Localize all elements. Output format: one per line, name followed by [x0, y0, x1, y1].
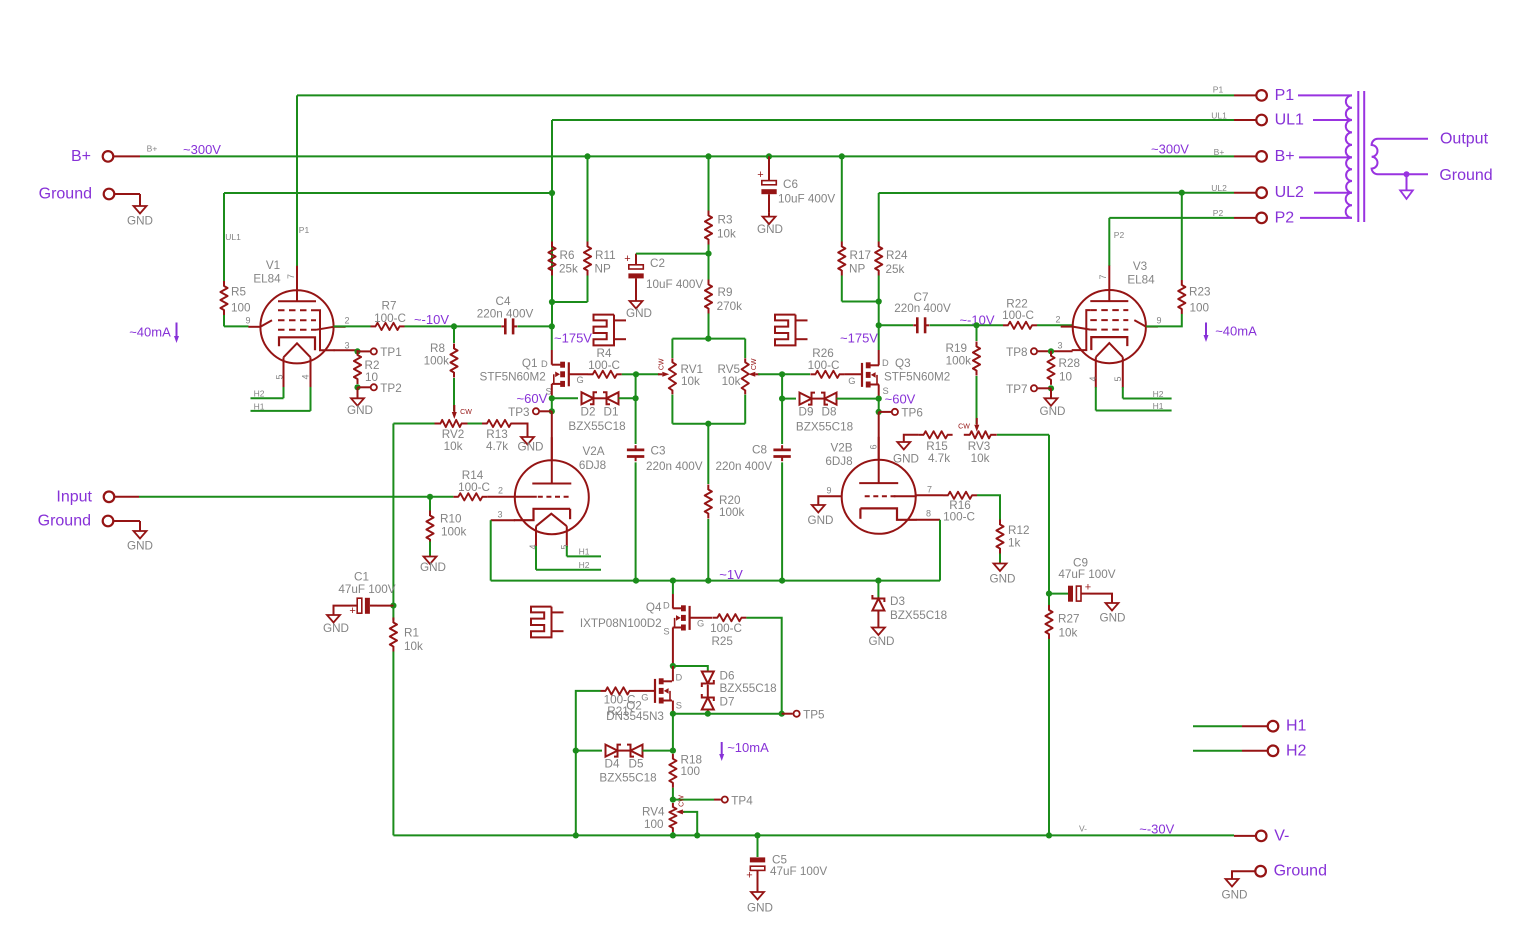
- svg-text:Q4: Q4: [646, 601, 662, 614]
- svg-text:D7: D7: [720, 695, 735, 708]
- wire T1 tap UL1: [1313, 119, 1352, 121]
- svg-text:TP2: TP2: [380, 382, 401, 395]
- wire bus to C5: [757, 835, 759, 857]
- test point TP5 circle: [794, 711, 800, 717]
- wire R8 top: [453, 326, 455, 343]
- junction C5: [754, 832, 760, 838]
- svg-text:STF5N60M2: STF5N60M2: [480, 371, 546, 384]
- svg-text:R17: R17: [850, 249, 871, 262]
- junction bus C3: [633, 578, 639, 584]
- wire T1 tap UL2: [1314, 192, 1352, 194]
- transistor Q1 STF5N60M2: [552, 362, 569, 387]
- wire H1 stub: [1242, 725, 1267, 727]
- svg-text:H2: H2: [254, 389, 265, 399]
- junction Q4 source / Q2 drain / D6: [670, 663, 676, 669]
- svg-text:10uF 400V: 10uF 400V: [646, 278, 703, 291]
- heater element (bias section): [531, 607, 564, 638]
- svg-text:P2: P2: [1213, 208, 1224, 218]
- svg-text:BZX55C18: BZX55C18: [599, 771, 656, 784]
- svg-text:CW: CW: [460, 409, 472, 416]
- svg-text:2: 2: [344, 316, 349, 326]
- junction D1/C3: [633, 395, 639, 401]
- wire R9 to box top: [708, 314, 710, 339]
- resistor R3: [705, 211, 712, 245]
- svg-text:GND: GND: [990, 573, 1016, 586]
- junction bus Q4 drain: [670, 578, 676, 584]
- wire V2B pin7 to R16: [917, 494, 944, 496]
- svg-text:Input: Input: [56, 488, 92, 505]
- wire B+ bus: [140, 155, 1234, 157]
- svg-text:D2: D2: [581, 406, 596, 419]
- wire TP8 to pin3: [1038, 350, 1073, 352]
- resistor R7: [371, 323, 405, 330]
- connector P1: [1256, 90, 1267, 101]
- resistor R12: [996, 520, 1003, 554]
- svg-text:~60V: ~60V: [517, 391, 548, 406]
- junction R6/R11: [549, 299, 555, 305]
- transistor Q2 DN3545N3: [655, 678, 672, 703]
- current arrow ~40mA (left): [176, 323, 178, 337]
- wire R7 to junction: [405, 325, 455, 327]
- wire RV2 left vertical: [392, 424, 394, 606]
- svg-text:C8: C8: [752, 443, 767, 456]
- svg-text:3: 3: [344, 341, 349, 351]
- connector H2: [1268, 746, 1279, 757]
- svg-text:10: 10: [365, 371, 379, 384]
- junction C7/Q3 drain: [876, 322, 882, 328]
- svg-text:GND: GND: [420, 561, 446, 574]
- wire C3 to bus: [635, 462, 637, 580]
- svg-text:100-C: 100-C: [710, 622, 742, 635]
- wire V3 pin4 leg: [1095, 387, 1097, 411]
- wire V1 pin2 to R7: [334, 325, 371, 327]
- svg-text:+: +: [1085, 581, 1091, 593]
- svg-text:10k: 10k: [971, 452, 990, 465]
- svg-text:R8: R8: [430, 342, 445, 355]
- wire input ground down: [139, 521, 141, 528]
- wiper arrow RV3: [976, 418, 978, 425]
- wire R15 left to GND corner: [904, 435, 919, 441]
- svg-text:D1: D1: [604, 406, 619, 419]
- capacitor C3 220n 400V: [627, 445, 644, 461]
- svg-text:6: 6: [869, 444, 879, 449]
- wire P1 vertical to V1 plate: [296, 95, 298, 266]
- wire Q4 drain lead up: [672, 594, 674, 608]
- wire D4-D5 link: [618, 750, 631, 752]
- wire R10 bottom: [429, 542, 431, 556]
- svg-text:R14: R14: [462, 469, 484, 482]
- resistor R6: [548, 242, 555, 276]
- potentiometer RV5 10k: [742, 358, 749, 394]
- wire RV5 bottom lead: [744, 395, 746, 424]
- current arrow ~40mA (right): [1205, 323, 1207, 336]
- wire source to TP3: [551, 398, 553, 411]
- svg-text:P2: P2: [1275, 209, 1295, 226]
- ground symbol below R2: [351, 387, 364, 406]
- junction TP6: [876, 409, 882, 415]
- ground symbol below C2: [630, 297, 643, 309]
- wire R27 to V- bus: [1048, 639, 1050, 835]
- wire D6-D7 link: [707, 685, 709, 698]
- test point TP7 circle: [1031, 385, 1037, 391]
- junction RV4 bottom V-: [670, 832, 676, 838]
- resistor R22: [1003, 322, 1037, 329]
- svg-text:6DJ8: 6DJ8: [825, 455, 852, 468]
- wire UL1 junction down to R6: [551, 193, 553, 281]
- wire R19 top: [976, 325, 978, 341]
- ground symbol at input B+ ground: [134, 201, 147, 214]
- resistor R11: [584, 242, 591, 276]
- svg-text:10k: 10k: [1059, 626, 1078, 639]
- wire UL2 down to R24: [878, 193, 880, 242]
- junction V- R27: [1046, 832, 1052, 838]
- wire junction to R14: [430, 496, 453, 498]
- wire box top: [672, 338, 745, 340]
- svg-text:UL1: UL1: [1211, 111, 1227, 121]
- wire Q2 drain up: [672, 666, 674, 681]
- svg-text:220n 400V: 220n 400V: [715, 460, 772, 473]
- svg-text:9: 9: [826, 485, 831, 495]
- svg-text:V3: V3: [1133, 260, 1147, 273]
- svg-text:S: S: [676, 700, 682, 710]
- wire V2A pin3 corner: [491, 519, 515, 521]
- junction R17/R24: [876, 298, 882, 304]
- junction bus C8: [779, 578, 785, 584]
- wire UL1 left segment: [224, 192, 552, 194]
- capacitor C1 47uF 100V: [350, 598, 377, 614]
- resistor R26: [810, 371, 844, 378]
- tube V2A 6DJ8: [514, 437, 589, 547]
- resistor R23: [1178, 280, 1185, 314]
- resistor R1: [390, 618, 397, 652]
- wire D9-D8 link: [812, 398, 825, 400]
- wire H1 run: [1193, 725, 1242, 727]
- junction B+ to R3: [705, 153, 711, 159]
- junction R7/C4/R8: [451, 323, 457, 329]
- ground symbol below R10: [424, 556, 437, 565]
- junction box bottom R20: [705, 421, 711, 427]
- resistor R14: [453, 493, 487, 500]
- junction TP2: [354, 384, 360, 390]
- svg-text:Q3: Q3: [895, 357, 911, 370]
- svg-text:220n 400V: 220n 400V: [477, 308, 534, 321]
- resistor R21: [601, 687, 635, 694]
- capacitor C5 47uF 100V: [750, 857, 765, 890]
- wire junction to C4: [454, 325, 501, 327]
- wire UL2 down to R23: [1181, 193, 1183, 280]
- wire RV2 to R13: [468, 423, 483, 425]
- resistor R20: [705, 485, 712, 519]
- diode D2 BZX55C18: [582, 392, 598, 404]
- svg-text:GND: GND: [747, 902, 773, 915]
- svg-text:Output: Output: [1440, 131, 1489, 148]
- wire T1 tap P1: [1298, 94, 1352, 96]
- wire TP1 stub: [358, 350, 371, 352]
- wire C1 left to ground: [334, 606, 351, 612]
- wire R4 to junction: [622, 373, 636, 375]
- transformer T1 secondary winding: [1372, 139, 1428, 175]
- wire input ground lead: [114, 520, 140, 522]
- junction B+ to C6: [766, 153, 772, 159]
- wire Q2 source down to D5 junction: [672, 714, 674, 751]
- junction C9/R27: [1046, 591, 1052, 597]
- resistor R28: [1047, 351, 1054, 385]
- svg-text:10k: 10k: [681, 375, 700, 388]
- svg-text:GND: GND: [323, 622, 349, 635]
- wire R11 to R6 jog: [552, 301, 588, 303]
- wire box bottom to R20: [707, 424, 709, 484]
- junction D7: [705, 711, 711, 717]
- svg-text:BZX55C18: BZX55C18: [568, 420, 625, 433]
- svg-text:NP: NP: [849, 263, 865, 276]
- connector J2 Ground terminal (top left): [104, 189, 115, 200]
- diode D5 BZX55C18: [627, 745, 643, 757]
- svg-text:CW: CW: [679, 795, 686, 807]
- svg-text:220n 400V: 220n 400V: [646, 460, 703, 473]
- wire R25 to TP5 corner: [746, 618, 781, 714]
- svg-text:C1: C1: [354, 571, 369, 584]
- svg-text:D: D: [676, 673, 683, 683]
- svg-text:~40mA: ~40mA: [1215, 324, 1257, 339]
- potentiometer RV4 100: [669, 803, 676, 832]
- wire drain column upper: [551, 302, 553, 326]
- wire TP3 stub: [540, 410, 552, 412]
- wire UL2 segment: [879, 192, 1234, 194]
- svg-text:~-30V: ~-30V: [1139, 822, 1174, 837]
- transistor Q4 IXTP08N100D2: [673, 605, 690, 630]
- wire R5 to V1 pin9: [223, 315, 225, 326]
- svg-text:V2B: V2B: [830, 442, 852, 455]
- wire bus to D3: [877, 581, 879, 599]
- svg-text:R6: R6: [560, 249, 575, 262]
- ground symbol bottom right: [1226, 878, 1239, 887]
- junction box top R9: [705, 336, 711, 342]
- junction R26/RV5/C8: [779, 371, 785, 377]
- svg-text:G: G: [577, 375, 584, 385]
- potentiometer RV1 10k: [669, 358, 676, 394]
- svg-text:4: 4: [301, 374, 311, 379]
- wire V1 pin5 leg: [283, 387, 285, 398]
- wire TP4 stub: [714, 799, 721, 801]
- svg-text:R9: R9: [718, 286, 733, 299]
- wire input run: [139, 496, 430, 498]
- wire D8 to Q3 source: [837, 398, 879, 400]
- svg-text:H2: H2: [579, 560, 590, 570]
- svg-text:TP5: TP5: [803, 708, 825, 721]
- svg-text:~1V: ~1V: [719, 567, 743, 582]
- wire V1 pin3 to TP1: [334, 349, 358, 351]
- svg-text:+: +: [624, 253, 630, 265]
- wire B+ terminal stub: [114, 155, 140, 157]
- svg-text:R10: R10: [440, 513, 462, 526]
- svg-text:9: 9: [1156, 315, 1161, 325]
- svg-text:R2: R2: [365, 359, 380, 372]
- wiper arrow RV2: [453, 405, 455, 412]
- wire bus to Q4 drain: [672, 581, 674, 594]
- svg-text:IXTP08N100D2: IXTP08N100D2: [580, 617, 662, 630]
- wire C8 to bus: [781, 462, 783, 580]
- svg-text:~300V: ~300V: [183, 142, 221, 157]
- connector B+ (right): [1256, 151, 1267, 162]
- wire R17 jog to R24: [842, 301, 879, 303]
- svg-text:R24: R24: [886, 249, 908, 262]
- wire P2 vertical to V3 plate: [1108, 218, 1110, 266]
- wire UL1 right stub: [1234, 119, 1256, 121]
- svg-text:D: D: [541, 359, 548, 369]
- wire RV1 line down: [635, 374, 637, 398]
- svg-text:~40mA: ~40mA: [129, 325, 171, 340]
- junction R3/R9/C2: [705, 251, 711, 257]
- wire UL1 down to R5: [223, 193, 225, 281]
- svg-text:D: D: [882, 358, 889, 368]
- wire cathode bus: [491, 580, 940, 582]
- svg-text:D6: D6: [720, 670, 735, 683]
- junction UL2 to R23: [1179, 190, 1185, 196]
- svg-text:Ground: Ground: [39, 186, 92, 203]
- svg-text:GND: GND: [1040, 405, 1066, 418]
- resistor R2: [354, 350, 361, 384]
- wire TP4 run: [673, 799, 714, 801]
- svg-text:R28: R28: [1059, 357, 1080, 370]
- svg-text:NP: NP: [595, 263, 611, 276]
- svg-text:G: G: [641, 692, 648, 702]
- wire R26 to Q3 gate: [844, 373, 861, 375]
- junction Q2 source: [670, 711, 676, 717]
- resistor R13 4.7k: [482, 420, 516, 427]
- svg-text:UL1: UL1: [225, 232, 241, 242]
- test point TP1 circle: [371, 348, 377, 354]
- svg-text:P1: P1: [1213, 85, 1224, 95]
- junction T1 secondary ground: [1404, 171, 1410, 177]
- svg-text:V-: V-: [1079, 823, 1087, 833]
- wire C9 right to ground corner: [1090, 594, 1112, 602]
- svg-text:+: +: [746, 870, 752, 882]
- heater element (V3 unit): [775, 315, 808, 346]
- junction TP4: [670, 797, 676, 803]
- svg-text:H2: H2: [1153, 389, 1164, 399]
- ground symbol below R12: [994, 563, 1007, 572]
- svg-text:V-: V-: [1274, 827, 1289, 844]
- resistor R27: [1045, 605, 1052, 639]
- ground symbol at input ground: [134, 528, 147, 539]
- wire D3 to gnd: [877, 610, 879, 627]
- svg-text:GND: GND: [518, 441, 544, 454]
- wire box bottom: [672, 423, 745, 425]
- svg-text:P1: P1: [1275, 87, 1295, 104]
- svg-text:R4: R4: [597, 347, 612, 360]
- resistor R25: [712, 614, 746, 621]
- wire TP7 stub: [1038, 387, 1051, 389]
- wire R17 bottom: [841, 276, 843, 302]
- diode D1 BZX55C18: [603, 392, 619, 404]
- svg-text:5: 5: [275, 374, 285, 379]
- wiper arrow RV4: [683, 811, 685, 813]
- svg-text:UL1: UL1: [1275, 112, 1304, 129]
- svg-text:GND: GND: [626, 307, 652, 320]
- wire P1 horizontal: [297, 94, 1234, 96]
- wire B+ down to R3: [708, 156, 710, 210]
- svg-text:GND: GND: [757, 223, 783, 236]
- capacitor C7 220n 400V: [913, 317, 929, 333]
- svg-text:100k: 100k: [946, 355, 972, 368]
- wire Q2 source down: [672, 701, 674, 714]
- wire V2A H1: [567, 555, 601, 557]
- connector P2: [1256, 213, 1267, 224]
- svg-text:R23: R23: [1189, 286, 1210, 299]
- connector V-: [1256, 831, 1267, 842]
- svg-text:V1: V1: [266, 259, 280, 272]
- wire D9 junction to C8: [781, 399, 783, 444]
- svg-text:TP4: TP4: [731, 794, 753, 807]
- resistor R15 4.7k: [919, 431, 953, 438]
- wire Q3 drain up: [878, 350, 880, 365]
- svg-text:100k: 100k: [424, 355, 450, 368]
- svg-text:GND: GND: [127, 540, 153, 553]
- svg-text:CW: CW: [659, 358, 666, 370]
- junction TP3: [549, 408, 555, 414]
- resistor R9: [705, 280, 712, 314]
- wire Q4 gate to R25: [690, 617, 712, 619]
- wire RV4 wiper corner: [684, 812, 698, 836]
- svg-text:10k: 10k: [717, 228, 736, 241]
- junction TP5: [779, 711, 785, 717]
- svg-text:H2: H2: [1286, 742, 1307, 759]
- wire R21 to Q2 gate: [635, 690, 656, 692]
- wire R20 to bus: [707, 519, 709, 581]
- svg-text:R3: R3: [718, 214, 733, 227]
- wire C4 to drain line: [518, 325, 552, 327]
- wire TP6 stub: [879, 411, 891, 413]
- svg-text:4.7k: 4.7k: [486, 440, 508, 453]
- junction D4 line: [573, 748, 579, 754]
- connector J1 B+ input terminal: [103, 151, 114, 162]
- svg-text:Ground: Ground: [38, 513, 91, 530]
- wire R10 top: [429, 497, 431, 514]
- resistor R8: [450, 344, 457, 378]
- diode D7 BZX55C18: [702, 694, 714, 710]
- ground symbol below R28: [1045, 388, 1058, 406]
- svg-text:~10mA: ~10mA: [727, 740, 769, 755]
- svg-text:+: +: [349, 605, 355, 617]
- svg-text:~60V: ~60V: [885, 392, 916, 407]
- svg-text:100: 100: [1190, 301, 1210, 314]
- svg-text:D4: D4: [605, 757, 620, 770]
- svg-text:100-C: 100-C: [1002, 309, 1034, 322]
- svg-text:R25: R25: [711, 635, 733, 648]
- svg-text:UL2: UL2: [1211, 183, 1227, 193]
- wire R14 to V2A pin2: [487, 496, 515, 498]
- svg-text:GND: GND: [127, 215, 153, 228]
- svg-text:B+: B+: [71, 148, 91, 165]
- svg-text:EL84: EL84: [253, 272, 281, 285]
- svg-text:Ground: Ground: [1439, 167, 1492, 184]
- svg-text:100-C: 100-C: [808, 359, 840, 372]
- wire D4 line left: [576, 750, 602, 752]
- svg-text:4: 4: [1088, 376, 1098, 381]
- wire T1 tap P2: [1300, 217, 1352, 219]
- svg-text:7: 7: [1098, 274, 1108, 279]
- svg-text:BZX55C18: BZX55C18: [890, 609, 947, 622]
- wire RV5 wiper to junction: [758, 373, 782, 375]
- junction V- D4 column: [573, 832, 579, 838]
- ground symbol at V2B grid return: [812, 503, 825, 513]
- potentiometer RV3 10k: [964, 431, 997, 438]
- svg-text:P2: P2: [1114, 230, 1125, 240]
- svg-text:47uF 100V: 47uF 100V: [770, 865, 827, 878]
- svg-text:D9: D9: [799, 406, 814, 419]
- svg-text:C2: C2: [650, 257, 665, 270]
- junction bus R20: [705, 578, 711, 584]
